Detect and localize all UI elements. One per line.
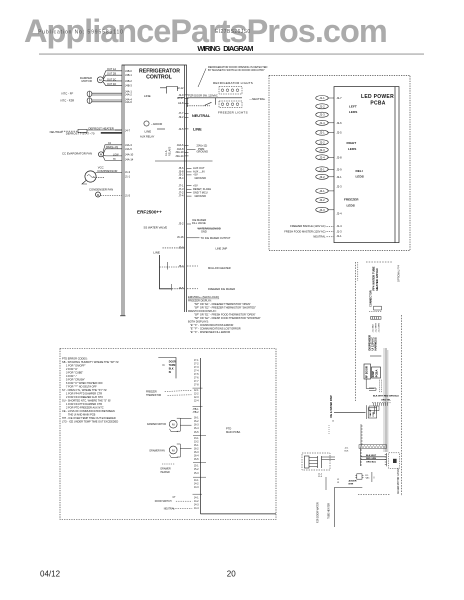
svg-text:DOOR: DOOR <box>169 361 176 363</box>
svg-text:FREEZER ICE MAKER: FREEZER ICE MAKER <box>208 287 235 291</box>
svg-text:FREEZER: FREEZER <box>146 392 157 394</box>
svg-text:"SP" OR "E2" - FREEZER THERMIS: "SP" OR "E2" - FREEZER THERMISTOR "SHORT… <box>194 305 256 309</box>
svg-text:J6-5: J6-5 <box>194 459 199 461</box>
svg-text:J1-1 BLK: J1-1 BLK <box>373 323 375 332</box>
svg-text:"E" "F" - DISPENSER FILL ERROR: "E" "F" - DISPENSER FILL ERROR <box>190 330 230 334</box>
svg-text:J4-2: J4-2 <box>319 198 325 202</box>
svg-text:J4A-6: J4A-6 <box>125 100 132 104</box>
svg-text:J3: J3 <box>337 482 340 484</box>
svg-text:CONDENSER FAN: CONDENSER FAN <box>89 188 113 192</box>
svg-text:AUGER MOTOR 120VAC: AUGER MOTOR 120VAC <box>397 467 400 494</box>
svg-text:J7-1: J7-1 <box>178 183 184 187</box>
svg-text:J5-2: J5-2 <box>194 469 199 471</box>
svg-text:J7-5: J7-5 <box>194 374 199 376</box>
svg-text:ERF2500++: ERF2500++ <box>137 210 162 215</box>
svg-text:J1-3: J1-3 <box>125 170 131 174</box>
svg-text:J4B-3: J4B-3 <box>125 84 132 88</box>
power rows <box>197 143 209 153</box>
inner right edge line <box>184 65 186 312</box>
svg-text:AUX OUT: AUX OUT <box>193 166 205 170</box>
svg-text:DAMPER MOTOR: DAMPER MOTOR <box>147 423 166 426</box>
svg-text:DRAWER: DRAWER <box>161 467 171 470</box>
pin tick row <box>374 403 388 406</box>
freezer thermistor <box>146 392 161 398</box>
svg-text:J5-6: J5-6 <box>178 166 184 170</box>
svg-text:LINE: LINE <box>153 250 160 254</box>
svg-text:04/12: 04/12 <box>40 570 61 579</box>
svg-text:MOTOR: MOTOR <box>82 79 92 83</box>
PTD MAIN PCBA label <box>226 427 241 435</box>
svg-text:J2-1: J2-1 <box>345 448 350 450</box>
freezer lights <box>219 101 242 108</box>
svg-text:J2-5: J2-5 <box>178 127 184 131</box>
svg-text:J1-4: J1-4 <box>337 224 343 228</box>
svg-text:J1-1: J1-1 <box>125 174 131 178</box>
aux rows <box>193 166 211 198</box>
joining line <box>370 355 381 357</box>
svg-text:J4-7: J4-7 <box>125 128 131 132</box>
svg-text:RIGHT: RIGHT <box>347 141 357 145</box>
heater zigzag box <box>359 445 386 449</box>
IC door term block <box>158 358 176 379</box>
svg-text:LOW: LOW <box>113 153 119 156</box>
svg-text:J3-2: J3-2 <box>178 221 184 225</box>
svg-text:J6-3: J6-3 <box>194 425 199 427</box>
svg-text:FZR DOOR WATER: FZR DOOR WATER <box>317 502 320 523</box>
and/or relay <box>144 121 149 126</box>
svg-text:J1-3: J1-3 <box>319 113 325 117</box>
svg-text:BLK: BLK <box>169 368 174 370</box>
svg-text:J1-2: J1-2 <box>318 473 323 475</box>
svg-text:LEDS: LEDS <box>356 175 364 179</box>
svg-text:FRESH FOOD MASTER (120V AC): FRESH FOOD MASTER (120V AC) <box>284 229 325 233</box>
svg-text:J2-1: J2-1 <box>319 131 325 135</box>
svg-text:1 FOR FF4 PTD DAMPER CTR: 1 FOR FF4 PTD DAMPER CTR <box>66 392 102 396</box>
svg-text:J1-5: J1-5 <box>125 193 131 197</box>
left connection lines <box>335 486 363 488</box>
svg-text:CONNECTOR: CONNECTOR <box>369 290 373 307</box>
svg-text:LINE: LINE <box>193 128 202 132</box>
left connector strip <box>360 448 362 466</box>
svg-text:OUT 4D: OUT 4D <box>107 83 116 86</box>
svg-text:J7-1: J7-1 <box>194 360 199 362</box>
svg-text:J6-1: J6-1 <box>194 417 199 419</box>
svg-text:PCBA: PCBA <box>374 370 378 378</box>
svg-text:CE - LOSS OF COMMUNICATION BET: CE - LOSS OF COMMUNICATION BETWEEN <box>62 409 115 413</box>
svg-text:HIT - ICE OVER TEMP TIME OUT E: HIT - ICE OVER TEMP TIME OUT EXCEEDED <box>62 416 116 420</box>
svg-text:ICE MAKER: ICE MAKER <box>192 218 206 222</box>
ice maker fill valve <box>192 218 235 291</box>
dashed vertical B <box>401 315 403 496</box>
svg-text:J6-4: J6-4 <box>194 456 199 458</box>
internal line bracket top <box>167 87 178 94</box>
svg-text:ORG YEL: ORG YEL <box>381 400 391 402</box>
svg-text:J2-1: J2-1 <box>337 175 343 179</box>
svg-text:J3A-14: J3A-14 <box>175 154 184 158</box>
svg-text:J7B-2: J7B-2 <box>192 412 199 414</box>
right edge pin stubs <box>185 95 189 156</box>
svg-text:J4B-1: J4B-1 <box>125 73 132 77</box>
svg-text:J7-4: J7-4 <box>194 371 199 373</box>
svg-text:A2-8: A2-8 <box>178 101 184 105</box>
svg-text:J4-3: J4-3 <box>319 208 325 212</box>
svg-text:J6-2: J6-2 <box>194 421 199 423</box>
svg-text:FREEZER: FREEZER <box>344 197 359 201</box>
svg-text:MTR: MTR <box>349 483 354 485</box>
svg-text:VALVE: VALVE <box>369 409 372 417</box>
svg-text:J2-7: J2-7 <box>337 96 343 100</box>
svg-text:LEDS: LEDS <box>349 110 357 114</box>
svg-text:J4-2: J4-2 <box>194 484 199 486</box>
PCB vertical bus <box>200 358 202 514</box>
svg-text:2 FOR "A": 2 FOR "A" <box>66 367 78 371</box>
svg-text:J3-2: J3-2 <box>194 441 199 443</box>
board pin labels <box>337 96 343 238</box>
svg-text:HI: HI <box>113 158 116 161</box>
comb connector <box>371 317 382 320</box>
drawer heater <box>162 463 175 465</box>
error code notes <box>62 357 119 424</box>
svg-text:FF DOOR: FF DOOR <box>364 366 368 378</box>
svg-text:J2-1: J2-1 <box>194 390 199 392</box>
svg-text:REFRIGERATOR LIGHTS: REFRIGERATOR LIGHTS <box>213 81 253 85</box>
wire bundle vertical <box>384 348 388 452</box>
left-edge pin labels <box>125 69 134 198</box>
svg-text:3 FOR "CUBE": 3 FOR "CUBE" <box>66 371 83 375</box>
svg-text:J2-3: J2-3 <box>337 184 343 188</box>
dashed box with auger relay <box>389 453 400 469</box>
svg-text:LINE JMP: LINE JMP <box>216 247 228 251</box>
svg-text:J7-2: J7-2 <box>194 364 199 366</box>
svg-text:FREEZER BAFFLE (120V AC): FREEZER BAFFLE (120V AC) <box>290 224 325 228</box>
svg-text:J7-6: J7-6 <box>194 378 199 380</box>
svg-text:AUGER: AUGER <box>349 479 357 482</box>
svg-text:"SP" OR "E1" - FRESH FOOD THER: "SP" OR "E1" - FRESH FOOD THERMISTOR "OP… <box>194 312 256 316</box>
svg-text:J3A-8: J3A-8 <box>177 147 184 151</box>
svg-text:J2-4: J2-4 <box>337 211 343 215</box>
long connector strip left <box>361 424 363 448</box>
svg-text:J1-1: J1-1 <box>319 96 325 100</box>
svg-text:GND: GND <box>201 229 207 233</box>
svg-text:BLK WHT RED GRN BLU: BLK WHT RED GRN BLU <box>373 396 399 398</box>
svg-text:FREEZER DISPLAY:: FREEZER DISPLAY: <box>188 298 212 302</box>
wires below boxes <box>366 379 381 393</box>
svg-text:~ AND/OR: ~ AND/OR <box>151 123 162 126</box>
svg-text:CONTROL: CONTROL <box>146 75 172 81</box>
internal wiring of control <box>157 87 185 291</box>
svg-text:J2-9: J2-9 <box>178 93 184 97</box>
svg-text:4 FOR "-": 4 FOR "-" <box>66 374 77 378</box>
svg-text:J1-2: J1-2 <box>319 104 325 108</box>
dashed horiz under labels <box>372 402 391 404</box>
inner left edge line <box>123 65 125 316</box>
compressor <box>97 166 117 174</box>
LED board outline <box>334 87 399 243</box>
svg-text:J3A-6: J3A-6 <box>177 143 184 147</box>
svg-text:GROUND: GROUND <box>195 194 207 198</box>
svg-text:PTD ERROR CODES:: PTD ERROR CODES: <box>62 357 88 361</box>
svg-text:J7-3: J7-3 <box>178 187 184 191</box>
svg-text:J4A-2: J4A-2 <box>125 92 132 96</box>
dashed vertical A <box>355 262 357 401</box>
svg-text:COIL: COIL <box>373 411 375 417</box>
svg-text:OUT 2B: OUT 2B <box>107 73 116 76</box>
svg-text:FILL VALVE: FILL VALVE <box>192 221 206 225</box>
svg-text:J4-1: J4-1 <box>319 189 325 193</box>
svg-text:M: M <box>172 423 175 427</box>
svg-text:LEDS: LEDS <box>347 203 355 207</box>
svg-text:J6-3: J6-3 <box>194 452 199 454</box>
svg-text:J4A-5: J4A-5 <box>125 147 132 151</box>
terminal block dashed <box>302 453 330 470</box>
svg-text:J6-1: J6-1 <box>194 445 199 447</box>
damper motor <box>80 76 92 83</box>
svg-text:(RED)(+13): (RED)(+13) <box>106 146 118 149</box>
svg-text:THE UI AND MAIN PCB: THE UI AND MAIN PCB <box>68 413 96 417</box>
svg-text:J7-7: J7-7 <box>194 381 199 383</box>
svg-text:5 FOR "CRUSH": 5 FOR "CRUSH" <box>66 378 85 382</box>
foot <box>120 315 126 317</box>
svg-text:RELAYS: RELAYS <box>169 146 172 156</box>
svg-text:M: M <box>99 78 102 82</box>
svg-text:ICE & WATER DISP: ICE & WATER DISP <box>330 395 333 418</box>
svg-text:OUT 3C: OUT 3C <box>107 78 116 81</box>
svg-text:J3-1: J3-1 <box>194 438 199 440</box>
svg-text:LED POWER: LED POWER <box>361 94 394 100</box>
svg-text:J4B-0: J4B-0 <box>125 69 132 73</box>
svg-text:"E" "F" - COMMUNICATIONS ERROR: "E" "F" - COMMUNICATIONS ERROR <box>190 323 233 327</box>
svg-text:J3A-10: J3A-10 <box>175 150 184 154</box>
svg-text:IC: IC <box>163 365 166 367</box>
svg-text:BLK: BLK <box>345 450 349 452</box>
svg-text:SY - OPEN CTL, WHERE THE "SY": SY - OPEN CTL, WHERE THE "SY" IS! <box>62 388 107 392</box>
svg-text:( ): ( ) <box>373 477 375 479</box>
svg-text:WIRING DIAGRAM: WIRING DIAGRAM <box>197 44 253 53</box>
bottom left wire labels <box>284 224 326 238</box>
svg-text:PCBA: PCBA <box>370 101 385 107</box>
svg-text:J4A-14: J4A-14 <box>125 157 134 161</box>
svg-text:MULLION HEATER: MULLION HEATER <box>208 266 231 270</box>
svg-text:TO ICE MAKER OUTPUT: TO ICE MAKER OUTPUT <box>201 236 231 240</box>
svg-text:J7-2: J7-2 <box>178 190 184 194</box>
svg-text:J4-1: J4-1 <box>194 497 199 499</box>
svg-text:REFRIGERATOR: REFRIGERATOR <box>139 68 180 74</box>
svg-text:ERF2500++ (MAIN LOGIC): ERF2500++ (MAIN LOGIC) <box>188 295 219 299</box>
svg-text:J4-4: J4-4 <box>194 508 199 510</box>
svg-text:THERMISTOR: THERMISTOR <box>146 395 161 397</box>
svg-text:BOTH DISPLAYS:: BOTH DISPLAYS: <box>188 319 209 323</box>
internal line to pin J2-5 <box>157 128 165 130</box>
svg-text:20: 20 <box>227 570 236 579</box>
svg-text:HARNESS: HARNESS <box>374 337 378 350</box>
dashed bottom <box>358 494 390 496</box>
svg-text:LINE: LINE <box>145 129 152 133</box>
svg-text:J2-6: J2-6 <box>337 121 343 125</box>
svg-text:J6-4: J6-4 <box>194 428 199 430</box>
right-edge pin labels <box>175 86 184 290</box>
svg-text:HEATER 120VAC: HEATER 120VAC <box>375 268 379 290</box>
svg-text:GROUND: GROUND <box>195 176 207 180</box>
svg-text:Publication No: 5995583110: Publication No: 5995583110 <box>38 30 124 36</box>
svg-text:J2-2: J2-2 <box>319 140 325 144</box>
svg-text:J2-4: J2-4 <box>194 400 199 402</box>
svg-text:GROUND: GROUND <box>197 149 209 153</box>
note text top <box>208 65 268 72</box>
svg-text:J2-17: J2-17 <box>177 96 184 100</box>
bundle wires with labels <box>361 457 386 460</box>
pin column group 1 <box>194 360 199 387</box>
connector ovals with labels <box>316 96 329 213</box>
svg-text:TERM: TERM <box>169 365 176 367</box>
svg-text:J3-1: J3-1 <box>319 167 325 171</box>
svg-text:J4A-10: J4A-10 <box>125 153 134 157</box>
svg-text:J3-8: J3-8 <box>178 245 184 249</box>
svg-text:J2-9: J2-9 <box>337 167 343 171</box>
svg-text:GND T MCU: GND T MCU <box>193 190 208 194</box>
svg-text:TUBE HEATER: TUBE HEATER <box>328 503 331 519</box>
svg-text:IN: IN <box>169 372 172 374</box>
small connector under <box>369 406 379 411</box>
svg-text:LTO - ICE UNDER TEMP TIME OUT: LTO - ICE UNDER TEMP TIME OUT EXCEEDED <box>62 420 118 424</box>
svg-text:SB - SHOWING HUMIDITY WHERE TH: SB - SHOWING HUMIDITY WHERE THE "SP" IS! <box>62 360 119 364</box>
svg-text:J6-5: J6-5 <box>194 432 199 434</box>
svg-text:J2: J2 <box>332 421 335 423</box>
svg-text:J7B-1: J7B-1 <box>192 409 199 411</box>
svg-text:J9-2: J9-2 <box>178 115 184 119</box>
svg-text:LEDS: LEDS <box>348 147 356 151</box>
wire color labels <box>373 396 399 402</box>
svg-text:J1-2 WHT: J1-2 WHT <box>376 322 378 332</box>
svg-text:FREEZER LIGHTS: FREEZER LIGHTS <box>218 111 248 115</box>
svg-text:VAC: VAC <box>366 477 371 480</box>
svg-text:RED GRN: RED GRN <box>366 458 377 460</box>
svg-text:J1-1: J1-1 <box>337 234 343 238</box>
svg-text:DEFROST T-STAT ~70: DEFROST T-STAT ~70 <box>66 131 95 135</box>
svg-text:DRAWER FAN: DRAWER FAN <box>150 449 166 452</box>
svg-text:J1-4: J1-4 <box>319 121 325 125</box>
svg-text:BLK WHT: BLK WHT <box>366 455 377 457</box>
svg-text:J1-3: J1-3 <box>337 229 343 233</box>
svg-text:SS WATER VALVE: SS WATER VALVE <box>144 226 168 230</box>
svg-text:DELI: DELI <box>356 169 363 173</box>
svg-text:CC EVAPORATOR FAN: CC EVAPORATOR FAN <box>62 152 92 156</box>
svg-text:SU - SHORTED NTC, WHERE THE "S: SU - SHORTED NTC, WHERE THE "S" IS! <box>62 399 111 403</box>
dashed vertical A2 <box>357 262 359 281</box>
auger motor connector <box>357 474 362 479</box>
svg-text:J7-8: J7-8 <box>194 385 199 387</box>
dashed horizontal top <box>366 261 392 263</box>
svg-text:6 FOR "C" WHEN HIGHER OFF: 6 FOR "C" WHEN HIGHER OFF <box>66 381 103 385</box>
svg-text:NEUTRAL: NEUTRAL <box>50 130 63 134</box>
svg-text:BY MAGNETIC SWITCH ON DOOR CIR: BY MAGNETIC SWITCH ON DOOR CIRCUITRY <box>208 68 265 72</box>
svg-text:2 FOR PTD FREEZER AUX NTC: 2 FOR PTD FREEZER AUX NTC <box>66 406 104 410</box>
svg-text:OPTIONAL FF4: OPTIONAL FF4 <box>398 264 401 282</box>
svg-text:"SP" OR "E1" - FREEZER THERMIS: "SP" OR "E1" - FREEZER THERMISTOR "OPEN" <box>194 302 251 306</box>
svg-text:HEATER: HEATER <box>161 471 170 474</box>
svg-text:LINE: LINE <box>144 94 151 98</box>
separator wire <box>155 160 213 162</box>
svg-text:1 FOR FF4 PTD DAMPER CTR: 1 FOR FF4 PTD DAMPER CTR <box>66 402 102 406</box>
control board U1 outline <box>122 65 187 316</box>
svg-text:"SP" OR "E2" - FRESH FOOD THER: "SP" OR "E2" - FRESH FOOD THERMISTOR "SH… <box>194 316 261 320</box>
svg-text:J6-16: J6-16 <box>177 235 184 239</box>
svg-text:DOOR SWITCH: DOOR SWITCH <box>155 501 172 503</box>
ice water dispenser line <box>334 411 366 413</box>
svg-text:J4-3: J4-3 <box>194 487 199 489</box>
internal LINE bus bottom <box>160 255 172 289</box>
svg-text:+5V: +5V <box>193 184 198 188</box>
svg-text:NEUTRAL: NEUTRAL <box>164 508 175 511</box>
svg-text:J7-4: J7-4 <box>178 194 184 198</box>
svg-text:J2-2: J2-2 <box>194 394 199 396</box>
svg-text:NEUTRAL: NEUTRAL <box>192 114 211 118</box>
defrost heater <box>50 126 114 135</box>
svg-text:M: M <box>172 448 175 452</box>
svg-text:—NEUTRAL: —NEUTRAL <box>249 97 265 101</box>
svg-text:FRESH FOOD DISPLAY:: FRESH FOOD DISPLAY: <box>188 309 217 313</box>
right connector strip <box>385 453 387 466</box>
svg-text:J2-5: J2-5 <box>337 131 343 135</box>
svg-text:7 FOR "**" NO DELTA OFF: 7 FOR "**" NO DELTA OFF <box>66 385 97 389</box>
note pointer line <box>198 69 206 88</box>
small labels below terminal <box>318 473 340 484</box>
svg-text:NTC - FF: NTC - FF <box>62 92 74 96</box>
svg-text:NTC - FZR: NTC - FZR <box>61 98 75 102</box>
svg-text:CT: CT <box>173 497 177 499</box>
svg-text:J4-1: J4-1 <box>194 480 199 482</box>
svg-text:1 FOR "ON/OFF": 1 FOR "ON/OFF" <box>66 364 86 368</box>
svg-text:J2: J2 <box>337 479 340 481</box>
svg-text:J1-4: J1-4 <box>318 476 323 478</box>
svg-text:OUT 1A: OUT 1A <box>107 68 116 71</box>
oval stubs to board <box>328 98 335 210</box>
svg-text:J2-4: J2-4 <box>319 155 325 159</box>
svg-text:AUX RELAY: AUX RELAY <box>140 134 155 138</box>
svg-text:J3-5: J3-5 <box>178 286 184 290</box>
FF door display boxes <box>364 364 371 379</box>
svg-text:20V(+12): 20V(+12) <box>197 143 208 147</box>
svg-text:J7-7: J7-7 <box>178 111 184 115</box>
svg-text:J4A-3: J4A-3 <box>125 143 132 147</box>
svg-text:J7-3: J7-3 <box>194 367 199 369</box>
svg-text:J1-3 GRN: J1-3 GRN <box>379 323 381 333</box>
svg-text:J5-1: J5-1 <box>194 466 199 468</box>
svg-text:LEFT: LEFT <box>349 105 357 109</box>
svg-text:J3-2: J3-2 <box>319 175 325 179</box>
svg-text:J2-3: J2-3 <box>194 397 199 399</box>
svg-text:~5V: ~5V <box>193 173 198 177</box>
svg-text:J2-3: J2-3 <box>319 148 325 152</box>
svg-text:J4-2: J4-2 <box>194 501 199 503</box>
svg-text:NEUTRAL: NEUTRAL <box>313 235 326 239</box>
svg-text:J5-4: J5-4 <box>178 176 184 180</box>
svg-text:J4-3: J4-3 <box>194 504 199 506</box>
svg-text:J5-3: J5-3 <box>194 473 199 475</box>
svg-text:EI27BS26JS0: EI27BS26JS0 <box>215 29 251 35</box>
header rule <box>39 53 424 56</box>
svg-text:FZR DOOR SW. 120VAC: FZR DOOR SW. 120VAC <box>189 94 218 98</box>
svg-text:2 FOR FF4 FREEZER AUX NTC: 2 FOR FF4 FREEZER AUX NTC <box>66 395 103 399</box>
svg-text:MAIN PCBA: MAIN PCBA <box>226 430 241 434</box>
svg-text:ORG BLU: ORG BLU <box>366 462 377 464</box>
svg-text:J6-2: J6-2 <box>194 448 199 450</box>
svg-text:"E" "F" - COMMUNICATIONS LOST: "E" "F" - COMMUNICATIONS LOST ERROR <box>190 326 241 330</box>
svg-text:PTD: PTD <box>226 427 231 431</box>
damper wires <box>103 71 122 79</box>
svg-text:J4B-2: J4B-2 <box>125 79 132 83</box>
svg-text:J2-8: J2-8 <box>337 155 343 159</box>
svg-text:J2-12: J2-12 <box>177 86 184 90</box>
